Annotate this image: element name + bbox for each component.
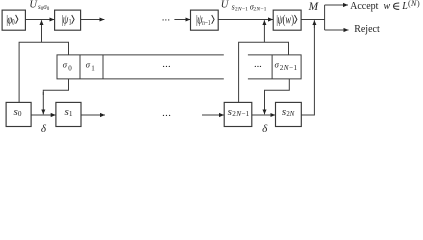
svg-text:···: ··· xyxy=(161,14,170,26)
svg-text:w: w xyxy=(384,1,391,12)
box s1 xyxy=(56,102,81,126)
wire s2N arrow up into quantum wire at M xyxy=(313,20,315,28)
wire out of |psi1> xyxy=(81,19,105,21)
state |psi n-1> label xyxy=(196,13,211,27)
svg-text:σ: σ xyxy=(275,60,280,70)
box s0 xyxy=(6,102,31,126)
box |phi0> xyxy=(2,10,25,30)
wire left U-elbow (s0 and sigma0 up to unitary) xyxy=(19,42,68,102)
wire left delta-elbow (sigma0 down to delta junction) xyxy=(43,79,68,95)
element-of symbol xyxy=(394,3,400,9)
wire reject arrow xyxy=(325,29,349,31)
wire measurement split vertical xyxy=(324,5,326,30)
svg-text:σ: σ xyxy=(63,60,68,70)
wire |phi0> to |psi1> xyxy=(25,19,54,21)
box s2N-1 xyxy=(224,102,252,126)
svg-text:2N−1: 2N−1 xyxy=(232,110,249,118)
state |psi(w)> label xyxy=(276,13,294,27)
svg-text:Accept: Accept xyxy=(350,1,379,12)
state |psi1> label xyxy=(61,13,71,27)
svg-text:1: 1 xyxy=(69,109,73,118)
box s2N xyxy=(276,102,302,126)
tape divider sigma1|dots xyxy=(102,55,104,79)
svg-text:|ψn−1: |ψn−1 xyxy=(196,13,211,27)
svg-text:0: 0 xyxy=(18,109,22,118)
svg-text:σ: σ xyxy=(86,60,91,70)
ket bracket of |phi0> xyxy=(16,15,18,24)
wire into s2N-1 xyxy=(202,114,224,116)
tape segment 2 (..., sigma2N-1) xyxy=(248,55,301,79)
wire accept arrow xyxy=(325,4,348,6)
svg-text:···: ··· xyxy=(162,110,171,122)
wire s0 to s1 xyxy=(31,114,56,116)
tape divider sigma0|sigma1 xyxy=(79,55,81,79)
wire right delta-elbow (sigma2N-1 down to delta junction) xyxy=(265,79,290,95)
svg-text:2N−1: 2N−1 xyxy=(280,64,298,72)
box |psi n-1> xyxy=(191,10,219,30)
wire s2N output up to measurement M xyxy=(301,25,314,115)
state |phi0> label xyxy=(6,13,15,27)
svg-text:Reject: Reject xyxy=(354,24,380,35)
svg-text:|φ0: |φ0 xyxy=(6,13,15,27)
wire right U-elbow (s2N-1 and sigma2N-1 up to unitary) xyxy=(239,42,289,102)
wire delta1 arrow down onto classical wire xyxy=(42,92,44,114)
svg-text:δ: δ xyxy=(262,123,268,133)
ket bracket of |psi1> xyxy=(72,15,74,24)
tape segment 1 (sigma0, sigma1, ...) xyxy=(57,55,224,79)
wire |psi n-1> to |psi(w)> xyxy=(218,19,273,21)
wire out of s1 xyxy=(81,114,105,116)
wire into |psi n-1> xyxy=(174,19,190,21)
svg-text:···: ··· xyxy=(162,61,171,73)
svg-text:···: ··· xyxy=(254,61,262,73)
svg-text:2N: 2N xyxy=(286,111,294,118)
tape divider dots|sigma2N-1 xyxy=(271,55,273,79)
svg-text:M: M xyxy=(308,1,320,13)
box |psi(w)> xyxy=(273,10,301,30)
wire |psi(w)> to measurement split xyxy=(301,19,325,21)
svg-text:|ψ1: |ψ1 xyxy=(61,13,71,27)
svg-text:(N): (N) xyxy=(408,0,420,8)
box |psi1> xyxy=(55,10,81,30)
svg-text:U: U xyxy=(221,0,230,11)
svg-text:1: 1 xyxy=(91,64,95,72)
svg-text:δ: δ xyxy=(41,123,47,133)
ket bracket of |psi n-1> xyxy=(212,15,214,24)
wire U s0 junction stem (arrow up into quantum wire) xyxy=(41,20,43,42)
wire U s2N-1 junction stem (arrow up into quantum wire) xyxy=(263,20,265,42)
wire s2N-1 to s2N xyxy=(252,114,275,116)
svg-text:s: s xyxy=(228,106,232,118)
wire delta2 arrow down onto classical wire xyxy=(264,92,266,114)
svg-text:|ψ(w): |ψ(w) xyxy=(276,13,294,27)
svg-text:0: 0 xyxy=(68,64,72,72)
ket bracket of |psi(w)> xyxy=(295,15,297,24)
